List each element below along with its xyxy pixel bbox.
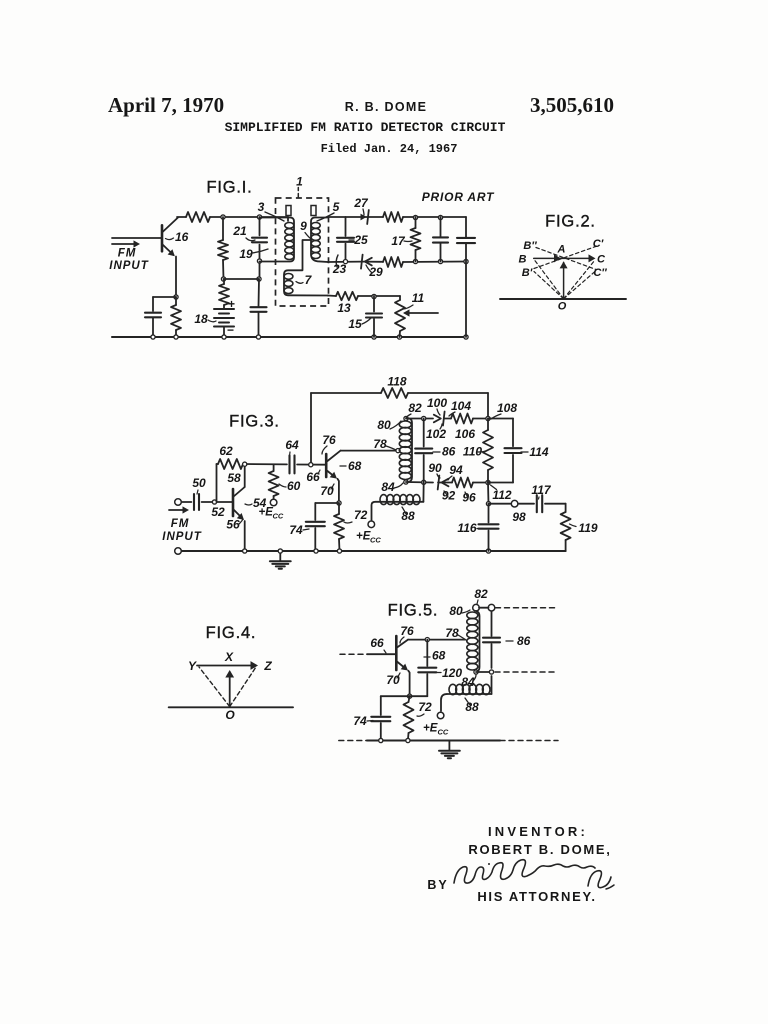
svg-text:25: 25 bbox=[353, 233, 368, 247]
svg-text:SIMPLIFIED FM RATIO DETECTOR C: SIMPLIFIED FM RATIO DETECTOR CIRCUIT bbox=[225, 120, 506, 135]
svg-text:104: 104 bbox=[451, 399, 471, 413]
svg-text:78: 78 bbox=[445, 626, 459, 640]
svg-text:78: 78 bbox=[373, 437, 387, 451]
svg-text:23: 23 bbox=[332, 262, 347, 276]
svg-text:FIG.5.: FIG.5. bbox=[388, 602, 439, 620]
svg-text:66: 66 bbox=[370, 636, 384, 650]
svg-text:FIG.I.: FIG.I. bbox=[206, 179, 252, 197]
svg-text:13: 13 bbox=[337, 301, 351, 315]
svg-text:INPUT: INPUT bbox=[109, 260, 149, 272]
svg-text:15: 15 bbox=[348, 317, 362, 331]
svg-text:102: 102 bbox=[426, 427, 446, 441]
svg-text:C″: C″ bbox=[593, 267, 607, 279]
svg-text:Y: Y bbox=[188, 659, 197, 673]
svg-text:O: O bbox=[225, 708, 235, 722]
svg-text:April 7, 1970: April 7, 1970 bbox=[108, 93, 224, 117]
svg-text:O: O bbox=[558, 301, 567, 313]
svg-text:68: 68 bbox=[432, 649, 446, 663]
svg-text:72: 72 bbox=[354, 508, 368, 522]
svg-text:88: 88 bbox=[401, 509, 415, 523]
svg-text:INVENTOR:: INVENTOR: bbox=[488, 824, 588, 839]
svg-text:C: C bbox=[597, 254, 606, 266]
svg-text:Filed Jan. 24, 1967: Filed Jan. 24, 1967 bbox=[321, 142, 458, 156]
svg-text:19: 19 bbox=[239, 247, 253, 261]
svg-text:R. B. DOME: R. B. DOME bbox=[345, 100, 427, 114]
svg-text:11: 11 bbox=[412, 291, 425, 305]
svg-text:CC: CC bbox=[273, 512, 284, 521]
svg-text:86: 86 bbox=[517, 634, 531, 648]
svg-text:72: 72 bbox=[418, 700, 432, 714]
svg-text:18: 18 bbox=[194, 312, 208, 326]
svg-text:116: 116 bbox=[457, 521, 476, 535]
svg-text:C′: C′ bbox=[593, 238, 605, 250]
svg-text:56: 56 bbox=[226, 518, 240, 532]
svg-text:+E: +E bbox=[259, 507, 274, 519]
svg-text:62: 62 bbox=[219, 444, 233, 458]
svg-text:70: 70 bbox=[320, 484, 334, 498]
svg-text:1: 1 bbox=[296, 175, 303, 189]
svg-text:84: 84 bbox=[381, 480, 395, 494]
svg-text:106: 106 bbox=[455, 427, 475, 441]
svg-text:114: 114 bbox=[529, 445, 548, 459]
svg-text:50: 50 bbox=[192, 476, 206, 490]
svg-text:64: 64 bbox=[285, 438, 299, 452]
svg-text:B′: B′ bbox=[522, 267, 534, 279]
svg-text:76: 76 bbox=[322, 433, 336, 447]
svg-text:+E: +E bbox=[356, 531, 371, 543]
svg-text:FIG.3.: FIG.3. bbox=[229, 413, 280, 431]
svg-text:74: 74 bbox=[353, 714, 367, 728]
svg-text:3: 3 bbox=[258, 200, 265, 214]
svg-text:80: 80 bbox=[377, 418, 391, 432]
svg-text:FIG.4.: FIG.4. bbox=[206, 624, 257, 642]
svg-text:80: 80 bbox=[449, 604, 463, 618]
svg-text:27: 27 bbox=[353, 196, 369, 210]
svg-text:119: 119 bbox=[578, 521, 597, 535]
svg-text:Z: Z bbox=[263, 659, 272, 673]
svg-text:FM: FM bbox=[118, 248, 137, 260]
svg-text:82: 82 bbox=[474, 587, 488, 601]
svg-text:112: 112 bbox=[492, 488, 511, 502]
svg-text:5: 5 bbox=[333, 200, 340, 214]
svg-text:BY: BY bbox=[427, 878, 448, 892]
svg-text:B: B bbox=[519, 254, 527, 266]
svg-text:CC: CC bbox=[438, 728, 449, 737]
svg-text:ROBERT B. DOME,: ROBERT B. DOME, bbox=[468, 842, 611, 857]
svg-text:58: 58 bbox=[227, 471, 241, 485]
svg-text:X: X bbox=[224, 650, 234, 664]
svg-text:94: 94 bbox=[449, 463, 463, 477]
svg-text:118: 118 bbox=[387, 375, 406, 389]
svg-text:74: 74 bbox=[289, 523, 303, 537]
svg-text:100: 100 bbox=[427, 396, 447, 410]
svg-text:7: 7 bbox=[305, 273, 313, 287]
svg-text:16: 16 bbox=[175, 230, 189, 244]
svg-text:60: 60 bbox=[287, 479, 301, 493]
svg-text:9: 9 bbox=[300, 219, 307, 233]
svg-text:CC: CC bbox=[370, 536, 381, 545]
svg-text:108: 108 bbox=[497, 401, 517, 415]
svg-text:98: 98 bbox=[512, 510, 526, 524]
svg-text:70: 70 bbox=[386, 673, 400, 687]
svg-text:A: A bbox=[557, 244, 566, 256]
svg-text:68: 68 bbox=[348, 459, 362, 473]
svg-text:52: 52 bbox=[211, 505, 225, 519]
svg-text:−: − bbox=[227, 323, 234, 337]
svg-text:+: + bbox=[228, 297, 235, 311]
svg-text:66: 66 bbox=[306, 470, 320, 484]
svg-text:INPUT: INPUT bbox=[162, 531, 202, 543]
svg-text:76: 76 bbox=[400, 624, 414, 638]
svg-text:FM: FM bbox=[171, 518, 190, 530]
svg-text:90: 90 bbox=[428, 461, 442, 475]
svg-text:120: 120 bbox=[442, 666, 462, 680]
svg-text:86: 86 bbox=[442, 445, 456, 459]
svg-text:B″: B″ bbox=[523, 240, 537, 252]
svg-text:FIG.2.: FIG.2. bbox=[545, 213, 596, 231]
svg-text:HIS ATTORNEY.: HIS ATTORNEY. bbox=[477, 889, 596, 904]
svg-text:+E: +E bbox=[423, 723, 438, 735]
svg-text:82: 82 bbox=[408, 401, 422, 415]
svg-text:3,505,610: 3,505,610 bbox=[530, 93, 614, 117]
svg-text:117: 117 bbox=[531, 483, 551, 497]
svg-text:96: 96 bbox=[462, 491, 476, 505]
svg-text:PRIOR ART: PRIOR ART bbox=[422, 190, 495, 204]
svg-text:21: 21 bbox=[232, 224, 247, 238]
